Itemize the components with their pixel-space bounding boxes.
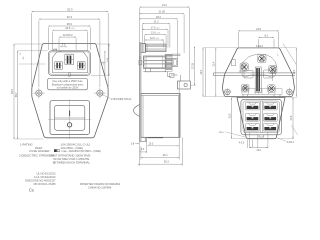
svg-text:18.2: 18.2 — [156, 16, 161, 19]
svg-text:4.5: 4.5 — [23, 57, 25, 60]
svg-text:un fusible de 250V: un fusible de 250V — [57, 86, 79, 90]
svg-text:UL NO:E122313: UL NO:E122313 — [37, 172, 56, 176]
IEC C14 socket opening — [53, 52, 88, 73]
rear view dims — [237, 32, 239, 47]
dimension 27.25 — [191, 47, 195, 86]
svg-text:23.5: 23.5 — [228, 113, 231, 118]
lower step — [145, 68, 150, 72]
terminal cell r2c1 — [245, 114, 259, 122]
svg-text:3-Φ2.0: 3-Φ2.0 — [256, 45, 264, 48]
left vdim 29.4 — [202, 48, 204, 97]
svg-text:8.3: 8.3 — [264, 34, 268, 37]
dimension 21.65 — [140, 11, 185, 15]
screw bottom-right — [268, 85, 276, 93]
dimension 63.5 — [11, 44, 14, 139]
terminal plate outline rear — [241, 54, 276, 77]
dimension 26.3 — [138, 163, 183, 165]
quick connect tab side — [178, 81, 191, 89]
solder pins side — [172, 53, 180, 55]
svg-text:CB NO:DC1-47280: CB NO:DC1-47280 — [33, 182, 56, 186]
dimension 13.6 — [145, 32, 166, 36]
bottom view bottom dims — [246, 140, 248, 149]
svg-text:58.7: 58.7 — [15, 92, 18, 97]
svg-text:24.9: 24.9 — [256, 28, 261, 31]
svg-text:PATENTED TAIWAN NO:M344364: PATENTED TAIWAN NO:M344364 — [80, 182, 121, 186]
bottom view left vdim 23.5 — [231, 98, 233, 139]
screw left — [240, 63, 248, 71]
fuse link bars right — [79, 63, 80, 68]
dimension 25.1 — [141, 157, 179, 159]
switch I mark — [69, 111, 71, 117]
switch body side — [141, 93, 180, 137]
mounting hole right — [94, 88, 106, 99]
upper body top band — [145, 44, 166, 52]
svg-text:23.4: 23.4 — [213, 61, 216, 66]
svg-text:max. 10A/ΦX2.5# 250V~ (VDE): max. 10A/ΦX2.5# 250V~ (VDE) — [62, 149, 102, 153]
svg-text:Cϵ: Cϵ — [29, 188, 34, 193]
earth screw — [258, 54, 266, 62]
svg-text:CHINA NO:1187694: CHINA NO:1187694 — [88, 186, 112, 190]
rear ledge lines — [214, 72, 296, 74]
svg-text:2-Φ3.5(Φ4.5±0.2): 2-Φ3.5(Φ4.5±0.2) — [111, 97, 132, 101]
svg-text:1.5: 1.5 — [20, 53, 22, 56]
corner leader bottom-right — [291, 125, 297, 135]
dimension 12.6 — [145, 37, 164, 41]
terminal plate outer — [241, 99, 282, 135]
bottom view stubs — [242, 95, 244, 98]
svg-text:21.2: 21.2 — [154, 21, 159, 24]
svg-text:29.4: 29.4 — [200, 69, 203, 74]
terminal cell r1c2 — [263, 102, 277, 110]
screw bottom-left — [241, 84, 249, 92]
svg-text:2-R4.2: 2-R4.2 — [287, 142, 295, 144]
rear ear hole left — [223, 88, 231, 96]
dimension 50.3 — [32, 8, 109, 13]
dimension 14.0 — [59, 33, 76, 38]
fuse drawer side — [141, 43, 146, 52]
svg-text:12.6 +0.3: 12.6 +0.3 — [150, 37, 159, 40]
dimension 28.2 — [49, 22, 91, 27]
bottom view outline — [237, 98, 285, 139]
dimension 8.3 — [258, 34, 274, 38]
bottom bump — [259, 135, 264, 137]
svg-text:63.5: 63.5 — [11, 89, 14, 94]
left vdim second line — [204, 48, 206, 97]
small box left of cluster — [232, 60, 236, 66]
svg-text:29.4: 29.4 — [293, 69, 296, 74]
socket bottom notch — [69, 73, 71, 77]
dimension 24.5 — [53, 26, 88, 31]
fuse marking glyphs — [54, 49, 57, 51]
dimension 21.2 — [142, 21, 170, 25]
left vdim 23.4 — [215, 48, 217, 97]
inlet recess face — [49, 51, 91, 76]
extension lines view A dims — [31, 13, 33, 87]
horizontal extension line — [203, 47, 296, 49]
terminal comb — [165, 54, 172, 56]
warning label box — [48, 79, 88, 90]
inner vertical right — [272, 71, 274, 81]
switch O mark — [67, 123, 71, 127]
terminal cell r2c2 — [263, 114, 277, 122]
side view dim stack extension lines — [139, 8, 141, 43]
rocker switch bezel — [50, 101, 90, 135]
svg-text:50.3: 50.3 — [67, 8, 73, 12]
terminal plate inner — [243, 101, 279, 133]
mounting hole left — [33, 88, 45, 99]
svg-text:N: N — [239, 71, 241, 74]
ratings text block — [19, 143, 101, 165]
svg-text:3.0: 3.0 — [62, 44, 66, 47]
switch foot — [144, 137, 146, 141]
rocker protrusion side — [134, 105, 140, 117]
svg-text:FUSE HOLDER :: FUSE HOLDER : — [30, 149, 52, 153]
upper body mid band — [143, 56, 166, 68]
inlet recess inner line — [50, 52, 90, 74]
rocker split line — [55, 117, 85, 119]
rear bottom cell row — [242, 88, 282, 90]
rear view outline — [222, 48, 294, 97]
svg-text:ENEC/VDE NO:40031327: ENEC/VDE NO:40031327 — [25, 179, 56, 183]
svg-text:10.3: 10.3 — [149, 143, 154, 146]
svg-text:4-2.0: 4-2.0 — [239, 141, 245, 144]
dimension 24.9 — [238, 28, 278, 32]
front view outline — [32, 43, 108, 137]
fuse link bars center — [67, 56, 68, 64]
side bottom dims — [139, 141, 141, 165]
dimension 24.2 — [140, 4, 190, 8]
right vertical dims — [295, 48, 297, 97]
dimension 12.0 — [250, 147, 268, 148]
svg-text:27.25: 27.25 — [191, 62, 194, 69]
terminal cell r1c1 — [245, 102, 259, 110]
svg-text:28.2: 28.2 — [67, 22, 73, 26]
svg-text:12.0: 12.0 — [256, 149, 261, 152]
svg-text:R5.6: R5.6 — [219, 132, 224, 134]
svg-text:14.0±0.2: 14.0±0.2 — [63, 33, 74, 37]
rear ear hole right — [285, 88, 293, 96]
screw right — [269, 65, 277, 73]
svg-text:21.65: 21.65 — [159, 11, 166, 14]
svg-text:40.3: 40.3 — [67, 15, 73, 19]
center fuse column rear — [255, 67, 261, 93]
tab bracket — [167, 72, 169, 77]
svg-text:BETWEEN EACH TERMINAL.: BETWEEN EACH TERMINAL. — [53, 161, 91, 165]
rocker switch button — [55, 105, 85, 130]
svg-text:17.6 +0.2: 17.6 +0.2 — [151, 26, 160, 29]
fuse window center — [65, 54, 74, 64]
switch centerlines — [69, 99, 71, 139]
terminal boxes — [244, 71, 253, 79]
fuse drawer tab end — [213, 73, 215, 76]
terminal cell r3c1 — [245, 124, 259, 132]
svg-text:25.1: 25.1 — [163, 154, 168, 157]
fuse window left — [55, 61, 63, 69]
dimension 58.7 — [15, 51, 18, 139]
svg-text:26.3: 26.3 — [164, 161, 169, 164]
dimension 40.3 — [39, 15, 100, 20]
svg-text:13.6 +0.3: 13.6 +0.3 — [151, 32, 160, 35]
dimension 18.2 — [140, 16, 178, 20]
fuse window right — [77, 61, 85, 69]
fuse link bars left — [57, 63, 58, 68]
svg-text:23.6: 23.6 — [290, 115, 293, 120]
terminal sub box — [172, 59, 177, 67]
dimension 4.5r — [103, 51, 105, 76]
terminal cell r3c2 — [263, 124, 277, 132]
center divider — [259, 101, 261, 133]
corner leader top-right — [283, 44, 296, 65]
svg-text:24.2: 24.2 — [162, 4, 167, 7]
certification numbers — [25, 172, 120, 193]
dimension 17.6 — [142, 26, 168, 30]
dimension 21.4r — [107, 44, 109, 75]
side flange plate — [139, 43, 141, 142]
pin boss detail — [139, 57, 141, 59]
svg-text:1.RATING: 1.RATING — [20, 143, 33, 147]
svg-text:C-UL NO:E122313: C-UL NO:E122313 — [34, 175, 56, 179]
